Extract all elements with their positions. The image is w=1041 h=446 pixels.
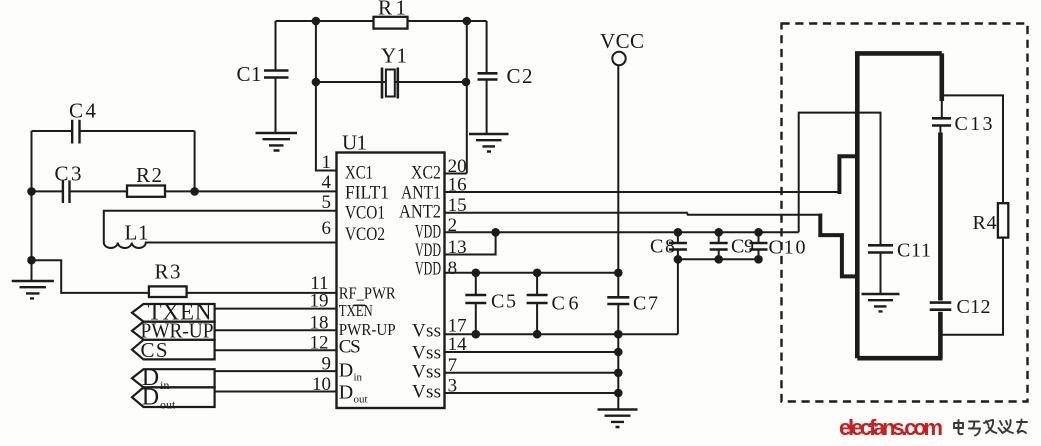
svg-text:R4: R4 [973, 212, 997, 234]
svg-text:C13: C13 [955, 113, 993, 135]
capacitor C1 [264, 71, 289, 78]
svg-text:Y1: Y1 [381, 44, 407, 68]
flag label Dout [142, 385, 176, 412]
capacitor C5 [475, 273, 477, 334]
wire crystal top rail [276, 20, 487, 22]
svg-text:R2: R2 [136, 163, 162, 187]
ground at C1 [256, 133, 298, 151]
loop right lower + bottom [857, 312, 942, 358]
wire Dout to pin 10 [215, 391, 337, 393]
wire VDD riser to antenna [799, 113, 881, 246]
wire Vss 7 [445, 372, 618, 374]
wire CS to pin 12 [215, 349, 337, 351]
svg-text:C4: C4 [69, 99, 97, 123]
wire left branch vertical [31, 131, 33, 260]
svg-text:D: D [142, 385, 159, 411]
wire crystal row [316, 81, 466, 83]
wire C3 row to FILT1 [32, 190, 337, 192]
wire VDD pin13 stub [445, 232, 496, 254]
svg-text:C11: C11 [897, 240, 931, 262]
VCC terminal circle [612, 52, 625, 65]
antenna loop thick traces [820, 53, 942, 358]
capacitor C8 [677, 232, 679, 259]
capacitor C6 [536, 273, 538, 334]
svg-text:3: 3 [448, 376, 458, 397]
wire ANT2 [445, 213, 820, 215]
svg-text:Vss: Vss [412, 321, 441, 342]
capacitor C3 [63, 180, 70, 203]
flag label Din [142, 365, 170, 392]
svg-text:R3: R3 [155, 260, 181, 284]
svg-text:elecfans.com: elecfans.com [839, 415, 943, 440]
svg-text:C3: C3 [55, 162, 82, 186]
wire ANT1 [445, 191, 839, 193]
wire left ground stem [31, 260, 33, 281]
wire ground jog to R3 [32, 260, 337, 293]
wire VDD pin8 rail [445, 272, 621, 274]
svg-text:RF_PWR: RF_PWR [339, 284, 397, 303]
svg-text:VCO2: VCO2 [345, 224, 385, 245]
resistor R4 [998, 203, 1008, 237]
capacitor C13 [940, 101, 941, 133]
capacitor C2 [478, 73, 498, 79]
svg-text:D: D [339, 382, 353, 404]
signal flag Din [132, 369, 215, 387]
svg-text:CS: CS [141, 338, 168, 362]
svg-text:ANT1: ANT1 [401, 183, 441, 204]
wire Din to pin 9 [215, 370, 337, 372]
ANT1 riser thick [839, 156, 857, 194]
svg-text:6: 6 [322, 218, 332, 239]
svg-text:14: 14 [448, 334, 468, 355]
svg-text:C10: C10 [769, 237, 806, 259]
loop left + top [855, 53, 942, 358]
wire C2 stem [486, 21, 488, 134]
svg-text:ANT2: ANT2 [399, 202, 441, 223]
svg-text:VCO1: VCO1 [345, 203, 385, 224]
ground main [598, 410, 638, 428]
wire R4 bottom link [942, 238, 1003, 335]
svg-text:out: out [160, 398, 176, 412]
capacitor C11 [868, 245, 893, 252]
watermark chinese characters drawn as strokes [954, 420, 1027, 436]
svg-text:C8: C8 [650, 236, 675, 258]
svg-text:5: 5 [322, 192, 332, 213]
inductor L1 [104, 238, 337, 248]
svg-text:16: 16 [448, 175, 467, 196]
svg-text:VCC: VCC [600, 29, 644, 53]
svg-text:C12: C12 [957, 296, 991, 318]
svg-text:R1: R1 [378, 0, 406, 20]
wire C4 right drop [194, 131, 196, 191]
svg-text:XC1: XC1 [345, 163, 373, 184]
wire VCC stem [617, 66, 619, 410]
crystal Y1 [382, 68, 398, 99]
svg-text:7: 7 [448, 355, 458, 376]
svg-text:C9: C9 [731, 236, 754, 258]
svg-text:8: 8 [448, 258, 458, 279]
wire C8 down link to ground rail [677, 259, 679, 334]
resistor R3 [149, 286, 187, 297]
capacitor C4 [72, 120, 79, 144]
wire Vss 14 [445, 351, 618, 353]
svg-text:4: 4 [322, 172, 332, 193]
TXEN overline [354, 304, 366, 306]
svg-text:13: 13 [448, 237, 467, 258]
ground at C2 [469, 134, 509, 152]
wire VDD pin2 rail [445, 231, 799, 233]
wire VCO1 to L1 [104, 211, 337, 238]
wire XC1 vertical (pin 1 net) [316, 21, 337, 171]
resistor R1 [374, 17, 408, 29]
svg-text:C7: C7 [633, 293, 658, 315]
wire XC2 vertical (pin 20 net) [445, 21, 467, 174]
svg-text:C2: C2 [507, 64, 533, 88]
capacitor C7 plates [607, 297, 629, 304]
capacitor C12 plates [930, 303, 952, 310]
svg-text:CS: CS [339, 337, 361, 358]
svg-text:in: in [354, 372, 363, 384]
wire C4 top loop [32, 130, 195, 132]
svg-text:out: out [354, 394, 368, 406]
ANT2 staircase thick [820, 214, 857, 277]
signal flag PWR-UP [132, 322, 215, 340]
svg-text:C5: C5 [491, 291, 516, 313]
chip U1 body [337, 153, 445, 409]
wire PWR-UP to pin 18 [215, 329, 337, 331]
ground left [12, 281, 54, 298]
svg-text:L1: L1 [125, 221, 149, 245]
capacitor C10 [758, 232, 760, 259]
svg-text:15: 15 [448, 195, 467, 216]
signal flag TXEN [132, 304, 215, 407]
pin numbers right [448, 156, 468, 397]
pin numbers left [310, 152, 332, 395]
capacitor C9 [718, 232, 720, 259]
svg-text:U1: U1 [342, 131, 367, 155]
wire R4 top link [942, 95, 1003, 203]
svg-text:XC2: XC2 [411, 163, 441, 184]
svg-text:D: D [339, 360, 353, 382]
wire Vss 17 rail [445, 333, 678, 335]
svg-text:VDD: VDD [415, 259, 441, 280]
resistor R2 [127, 186, 165, 197]
loop right mid section [938, 133, 943, 301]
signal flag Dout [132, 387, 215, 407]
wire C1 stem [275, 21, 277, 133]
svg-text:FILT1: FILT1 [345, 183, 389, 204]
wire TXEN to pin 19 [215, 309, 337, 392]
svg-text:2: 2 [448, 215, 458, 236]
svg-text:Vss: Vss [412, 382, 441, 403]
ground at C11 [862, 294, 900, 311]
wire Vss 3 [445, 392, 618, 394]
signal flag CS [132, 340, 215, 360]
svg-text:Vss: Vss [412, 343, 441, 364]
svg-text:C1: C1 [237, 62, 262, 86]
svg-text:1: 1 [322, 152, 332, 173]
dashed application box [782, 24, 1028, 402]
svg-text:in: in [160, 378, 169, 392]
svg-text:Vss: Vss [412, 362, 441, 383]
svg-text:TXEN: TXEN [339, 301, 373, 320]
wire C8-C10 bottom rail [678, 258, 759, 260]
